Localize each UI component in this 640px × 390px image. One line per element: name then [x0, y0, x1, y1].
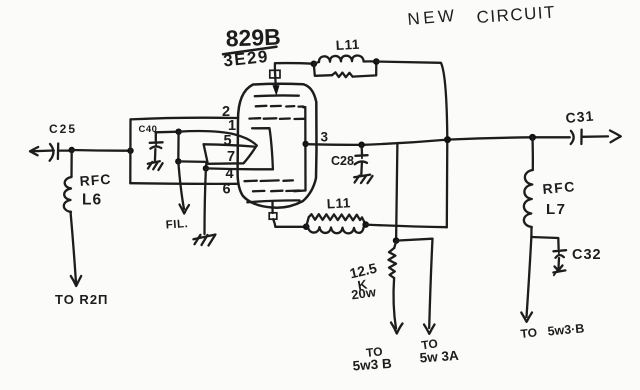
svg-text:5w3 B: 5w3 B: [352, 356, 392, 374]
svg-text:1: 1: [228, 118, 236, 134]
capacitor C25: [49, 122, 77, 161]
node dot1 (C40 / pin1 / wedge): [175, 129, 181, 135]
wire L11 to right vertical: [366, 225, 447, 228]
lower dashed row C: [245, 179, 293, 182]
svg-text:L7: L7: [546, 201, 567, 218]
node resistor top: [393, 237, 400, 244]
node L11 top right: [373, 58, 380, 65]
upper dashed row 1: [256, 105, 304, 108]
svg-text:L11: L11: [335, 37, 360, 53]
wedge bottom edge: [208, 146, 257, 164]
inductor L11 (top): coil + zigzag: [314, 37, 377, 77]
capacitor C31: [565, 108, 621, 144]
svg-text:C28: C28: [331, 154, 354, 168]
svg-text:TO R2Π: TO R2Π: [55, 292, 108, 307]
anode top solid line: [255, 94, 299, 97]
title NEW CIRCUIT: [407, 2, 557, 28]
L7 down to SW3B: [527, 236, 532, 317]
svg-text:RFC: RFC: [79, 171, 112, 189]
capacitor C28: [331, 142, 373, 184]
wire bottom cap to L11: [275, 226, 306, 228]
svg-text:6: 6: [223, 182, 231, 198]
wire pin6 row (box bottom): [130, 182, 238, 185]
capacitor C32: [553, 247, 601, 275]
tube top cap: [270, 70, 280, 94]
branch to C32: [531, 237, 558, 249]
wire L11 top to corner and down (tall right vertical): [376, 62, 447, 228]
bottom solid line: [247, 200, 299, 202]
wire pin4 row: [206, 167, 273, 170]
node L11 bottom right: [362, 221, 369, 228]
svg-text:3: 3: [321, 130, 329, 145]
svg-text:RFC: RFC: [542, 178, 577, 197]
svg-text:7: 7: [227, 149, 235, 165]
RFC L7: [524, 134, 577, 237]
inner wedge left edge: [204, 144, 208, 162]
capacitor C40: [139, 124, 179, 170]
resistor 12.5K 20W: [348, 241, 402, 374]
pin labels: [222, 104, 236, 198]
svg-text:C40: C40: [139, 124, 158, 135]
tube label 829B / 3E29: [222, 24, 281, 71]
svg-text:5: 5: [224, 133, 232, 149]
inductor L11 (bottom): zigzag + coil: [306, 195, 366, 233]
wire pin2 row (box top): [131, 118, 239, 120]
upper dashed row 2 (pin2 line): [249, 117, 304, 120]
node: grid box left junction: [127, 148, 133, 154]
svg-text:5w 3A: 5w 3A: [419, 348, 459, 366]
wedge top edge (pin1 wire into tube): [179, 131, 257, 145]
tube bottom cap: [269, 202, 277, 227]
node: input junction: [69, 147, 75, 153]
input arrow (left): [30, 147, 54, 155]
branch to SW3A: [396, 239, 432, 328]
inner box right edge: [294, 107, 306, 191]
svg-text:C25: C25: [49, 122, 77, 136]
screen feed vertical to resistor: [396, 144, 397, 241]
node dot3: [203, 165, 209, 171]
node pin3: [302, 141, 308, 147]
node L11 bottom left: [303, 223, 310, 230]
ground (under dot3): [193, 168, 215, 245]
top cap wire to L11 top: [275, 63, 314, 70]
main output row: pin3 to C31: [306, 137, 570, 145]
wire dot2 to inner wedge: [178, 161, 206, 168]
lower dashed row D: [253, 189, 300, 192]
tube envelope: [238, 84, 317, 208]
FIL vertical from dot1: [177, 132, 180, 162]
grid box left vertical: [129, 119, 131, 183]
inner L-shape / center rod: [252, 128, 273, 169]
svg-text:TO: TO: [520, 325, 538, 341]
svg-text:C31: C31: [565, 108, 595, 126]
inner wedge top edge: [204, 144, 254, 146]
svg-text:L11: L11: [326, 195, 351, 211]
svg-text:4: 4: [226, 166, 234, 182]
node L11 top left: [311, 61, 318, 68]
node top-right of tall vertical crossing output row: [444, 136, 451, 143]
svg-text:C32: C32: [572, 247, 602, 263]
node dot2: [175, 158, 181, 164]
svg-text:L6: L6: [82, 192, 102, 209]
wire input junction to grid box: [72, 149, 129, 152]
FIL lead with arrow: [165, 161, 189, 231]
svg-text:FIL.: FIL.: [165, 218, 188, 232]
RFC L6: [55, 150, 112, 307]
